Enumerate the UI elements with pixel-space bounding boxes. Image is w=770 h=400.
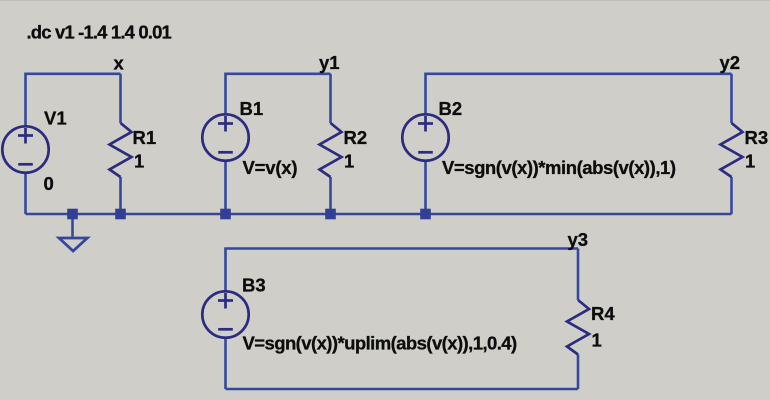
resistor R1 (110, 123, 132, 177)
wire R1 bottom lead (119, 177, 122, 214)
resistor R2 (320, 123, 342, 177)
wire B2 bottom lead (424, 161, 427, 215)
resistor R3 (721, 123, 743, 177)
svg-text:1: 1 (745, 151, 755, 172)
wire R2 top lead (329, 74, 332, 123)
wire ground stem (71, 214, 74, 237)
bv source B1 (202, 114, 248, 160)
wire B3 top lead and y3 rail (226, 249, 579, 292)
svg-text:1: 1 (134, 151, 144, 172)
svg-text:y2: y2 (720, 52, 741, 73)
junction R1/bus (115, 209, 126, 220)
svg-text:B2: B2 (439, 98, 463, 119)
wire R1 top lead (119, 74, 122, 123)
svg-text:V=sgn(v(x))*min(abs(v(x)),1): V=sgn(v(x))*min(abs(v(x)),1) (442, 157, 676, 178)
wire V1 top lead to node x rail (26, 74, 121, 127)
svg-text:R4: R4 (591, 303, 615, 324)
voltage source V1 (2, 126, 48, 172)
wire B3 loop bottom rail (226, 388, 579, 391)
wire ground bus (26, 213, 732, 216)
wire B1 top lead and y1 rail (226, 74, 331, 115)
svg-text:y1: y1 (319, 52, 340, 73)
svg-text:V1: V1 (44, 108, 67, 129)
wire R2 bottom lead (329, 177, 332, 214)
junction R2/bus (325, 209, 336, 220)
wire R3 top lead (730, 74, 733, 123)
resistor R4 (567, 300, 589, 355)
svg-text:0: 0 (44, 173, 54, 194)
wire B1 bottom lead (224, 161, 227, 215)
bv source B2 (402, 114, 448, 160)
ground symbol (59, 238, 87, 251)
svg-text:1: 1 (344, 151, 354, 172)
wire R3 bottom lead (730, 177, 733, 214)
wire R4 top lead (577, 249, 580, 301)
svg-text:V=v(x): V=v(x) (243, 157, 298, 178)
svg-text:R2: R2 (344, 127, 368, 148)
svg-text:x: x (114, 53, 125, 74)
wire B3 bottom lead (224, 338, 227, 390)
junction at ground (67, 209, 78, 220)
svg-text:R3: R3 (745, 127, 769, 148)
svg-text:B3: B3 (242, 275, 266, 296)
wire V1 bottom lead (24, 173, 27, 215)
svg-text:B1: B1 (240, 98, 264, 119)
svg-text:R1: R1 (133, 127, 157, 148)
wire B2 top lead and y2 rail (426, 74, 732, 115)
junction B2/bus (420, 209, 431, 220)
bv source B3 (202, 291, 248, 337)
svg-text:V=sgn(v(x))*uplim(abs(v(x)),1,: V=sgn(v(x))*uplim(abs(v(x)),1,0.4) (243, 333, 518, 354)
svg-text:y3: y3 (568, 229, 589, 250)
wire R4 bottom lead (577, 355, 580, 390)
junction B1/bus (220, 209, 231, 220)
svg-text:1: 1 (592, 330, 602, 351)
svg-text:.dc v1 -1.4 1.4 0.01: .dc v1 -1.4 1.4 0.01 (27, 22, 172, 43)
